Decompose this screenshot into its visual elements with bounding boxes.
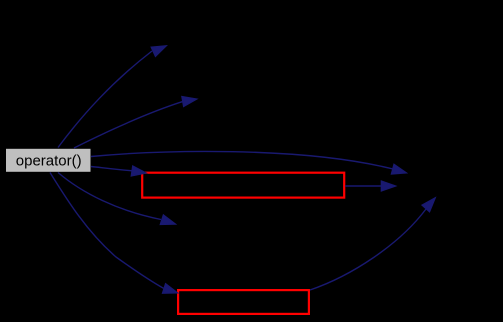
edge box1 to far right node [345, 181, 396, 191]
edge operator() to top node 2 [74, 96, 197, 148]
edge operator() to box1 [91, 166, 147, 176]
node box1 (red, truncated) [142, 173, 344, 198]
svg-text:operator(): operator() [16, 152, 82, 169]
node box2 (red, truncated) [178, 290, 309, 314]
edge operator() to box2 (long bottom-left curve) [50, 173, 178, 294]
edge operator() to top node 1 [58, 46, 167, 148]
node operator() (root, grey) [6, 148, 92, 172]
edge operator() to lower middle node [58, 173, 176, 225]
edge box2 to far right node (bottom-right curve) [310, 198, 436, 291]
edge operator() to far right node (long top curve) [91, 151, 407, 174]
